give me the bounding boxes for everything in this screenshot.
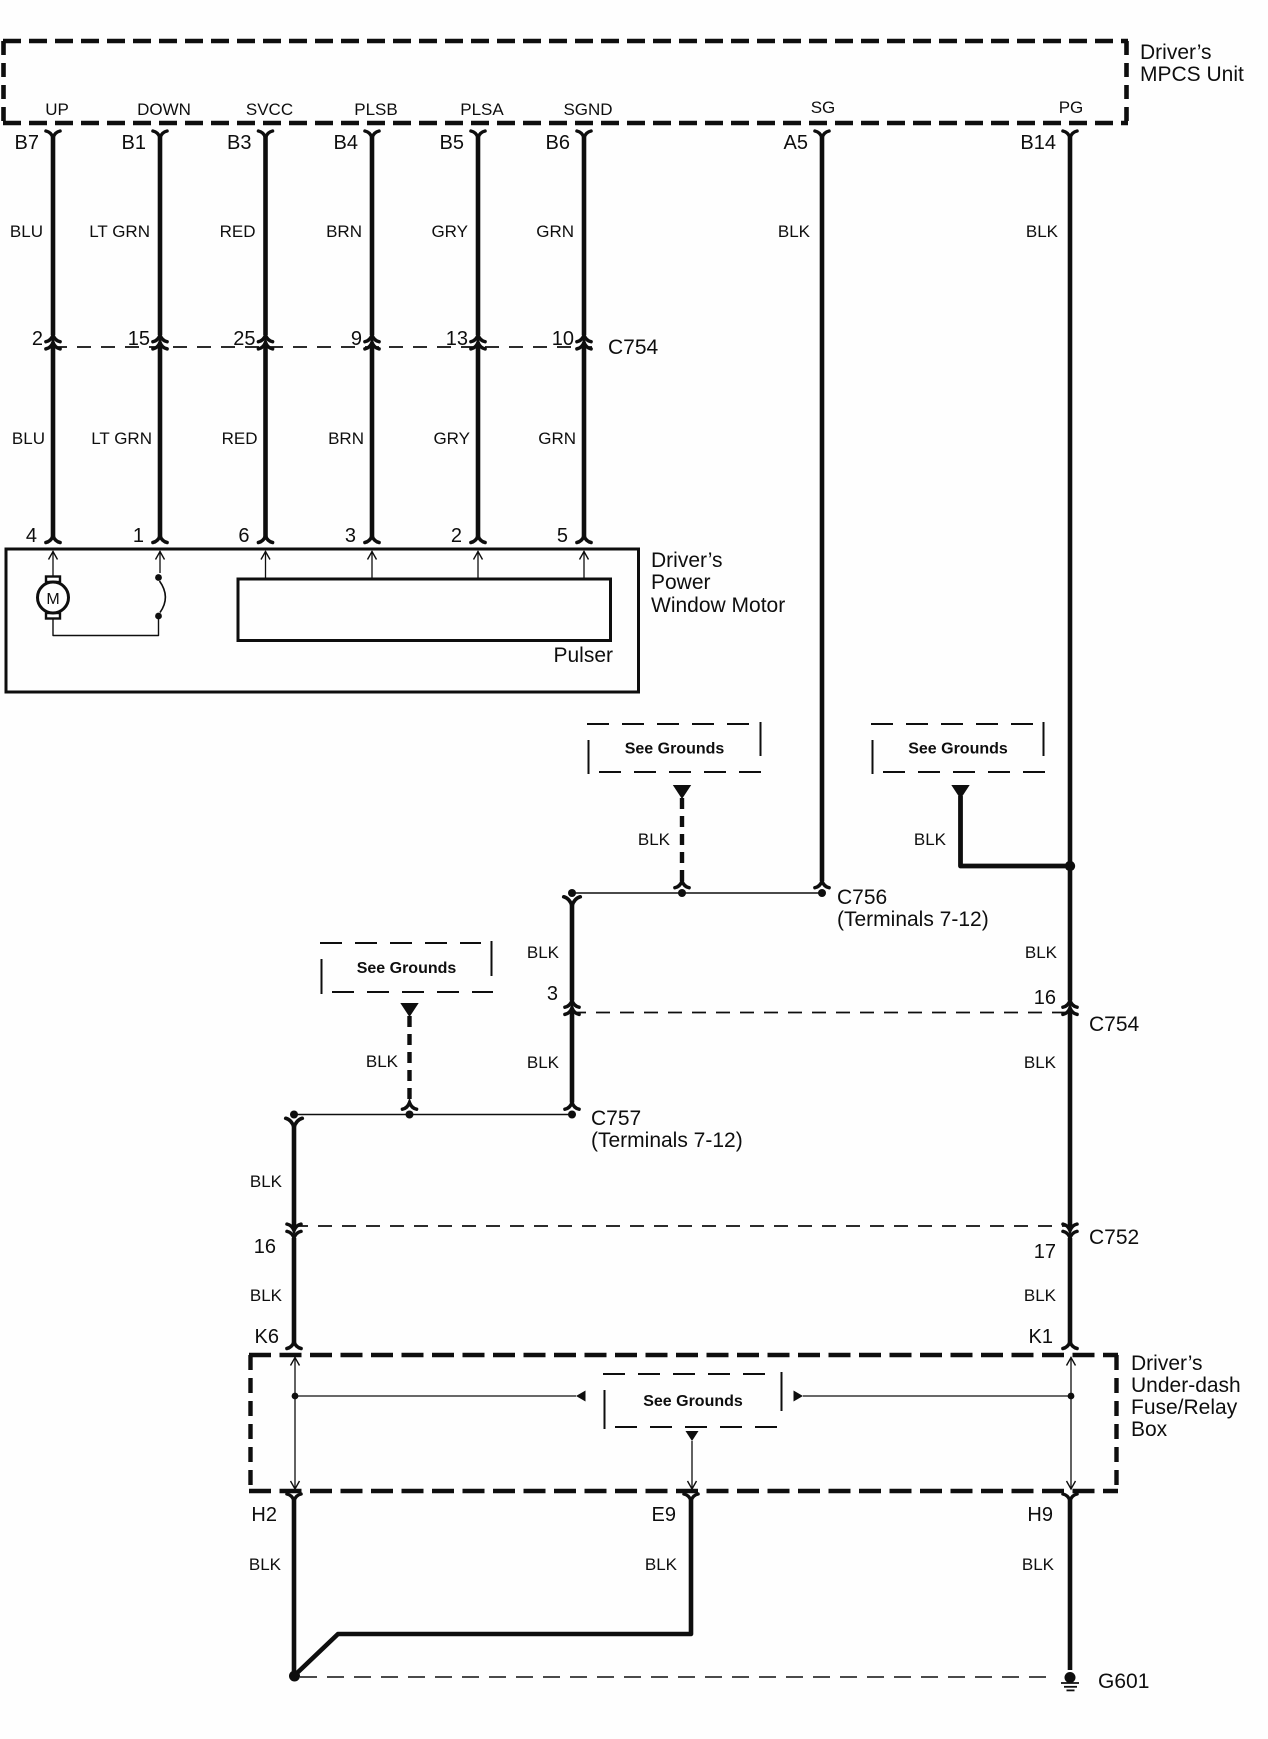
connector C754 pin 25 pass-through bbox=[233, 328, 272, 350]
svg-text:2: 2 bbox=[451, 525, 462, 547]
internal lead to pin 1 bbox=[156, 551, 165, 573]
MPCS pin name SGND bbox=[563, 100, 612, 119]
wire BLU from C754 to motor pin 4 bbox=[12, 344, 53, 537]
MPCS pin name PG bbox=[1059, 98, 1084, 117]
svg-text:SG: SG bbox=[811, 98, 836, 117]
MPCS pin name UP bbox=[45, 100, 69, 119]
svg-text:GRY: GRY bbox=[431, 222, 468, 241]
motor connector pin 3 bbox=[345, 525, 379, 547]
MPCS pin name PLSA bbox=[460, 100, 504, 119]
svg-text:4: 4 bbox=[26, 525, 37, 547]
triangle pointer from see grounds 2 bbox=[951, 785, 969, 799]
label C756 bbox=[837, 886, 989, 931]
terminal B4 at MPCS unit bbox=[334, 131, 380, 154]
svg-text:RED: RED bbox=[222, 429, 258, 448]
svg-text:2: 2 bbox=[32, 328, 43, 350]
C757 node left bbox=[290, 1111, 298, 1119]
svg-text:Fuse/Relay: Fuse/Relay bbox=[1131, 1396, 1238, 1419]
see grounds reference box 2 bbox=[871, 722, 1045, 774]
ground splice node bbox=[289, 1671, 300, 1682]
svg-text:5: 5 bbox=[557, 525, 568, 547]
svg-text:BLK: BLK bbox=[1022, 1555, 1055, 1574]
wire BLK dashed from see grounds 3 to C757 bbox=[366, 1016, 410, 1103]
label drivers under-dash fuse relay box bbox=[1131, 1352, 1241, 1441]
connector C754 (lower dashed line) bbox=[572, 1013, 1140, 1037]
terminal B6 at MPCS unit bbox=[546, 131, 592, 154]
svg-text:MPCS Unit: MPCS Unit bbox=[1140, 63, 1244, 86]
svg-text:BLU: BLU bbox=[12, 429, 45, 448]
svg-text:See Grounds: See Grounds bbox=[643, 1393, 743, 1410]
A5 wire end fork at C756 bbox=[815, 881, 829, 888]
wire BRN from C754 to motor pin 3 bbox=[328, 344, 372, 537]
wire BLK from C754 pin 3 to C757 bbox=[527, 1010, 572, 1103]
svg-text:BLK: BLK bbox=[527, 943, 560, 962]
svg-text:See Grounds: See Grounds bbox=[908, 741, 1008, 758]
wire BLK on PG line C754 to C752 bbox=[1024, 1010, 1070, 1230]
connector C754 pin 9 pass-through bbox=[351, 328, 379, 350]
svg-text:LT GRN: LT GRN bbox=[91, 429, 152, 448]
svg-text:G601: G601 bbox=[1098, 1670, 1149, 1693]
svg-text:H9: H9 bbox=[1027, 1504, 1053, 1526]
svg-text:SGND: SGND bbox=[563, 100, 612, 119]
C757 node right bbox=[568, 1111, 576, 1119]
svg-text:BLK: BLK bbox=[527, 1053, 560, 1072]
wire BLK from see grounds 2 to PG wire bbox=[914, 796, 1070, 866]
svg-text:C757: C757 bbox=[591, 1107, 641, 1130]
svg-text:17: 17 bbox=[1034, 1241, 1056, 1263]
svg-text:DOWN: DOWN bbox=[137, 100, 191, 119]
MPCS pin name PLSB bbox=[354, 100, 397, 119]
wire BLU from B7 to C754 pin 2 bbox=[10, 136, 53, 335]
svg-text:BRN: BRN bbox=[326, 222, 362, 241]
svg-text:B6: B6 bbox=[546, 132, 570, 154]
motor connector pin 6 bbox=[238, 525, 272, 547]
terminal E9 fuse box bbox=[652, 1494, 699, 1526]
internal ground bus left arm bbox=[295, 1391, 586, 1402]
pulser switch contact (upper) bbox=[155, 574, 162, 581]
svg-text:BLK: BLK bbox=[1025, 943, 1058, 962]
C756 node middle bbox=[678, 889, 686, 897]
wire LT GRN from B1 to C754 pin 15 bbox=[89, 136, 160, 335]
svg-text:BLK: BLK bbox=[250, 1286, 283, 1305]
motor connector pin 4 bbox=[26, 525, 60, 547]
wire BLK from E9 to ground splice bbox=[296, 1498, 691, 1674]
svg-text:BLK: BLK bbox=[638, 830, 671, 849]
connector C754 pin 15 pass-through bbox=[128, 328, 167, 350]
label G601 bbox=[1098, 1670, 1149, 1693]
svg-text:BRN: BRN bbox=[328, 429, 364, 448]
svg-text:BLK: BLK bbox=[1024, 1286, 1057, 1305]
connector C754 pin 10 pass-through bbox=[552, 328, 591, 350]
terminal B3 at MPCS unit bbox=[227, 131, 273, 154]
svg-text:B1: B1 bbox=[122, 132, 146, 154]
svg-text:Driver’s: Driver’s bbox=[1140, 41, 1212, 64]
terminal B14 at MPCS unit bbox=[1020, 131, 1077, 154]
svg-text:BLK: BLK bbox=[250, 1172, 283, 1191]
internal lead to pin 2 bbox=[474, 551, 483, 579]
label: Drivers MPCS Unit bbox=[1140, 41, 1244, 86]
connector C756 line bbox=[572, 892, 822, 894]
svg-text:K6: K6 bbox=[255, 1326, 279, 1348]
see grounds reference box 1 bbox=[587, 722, 762, 774]
connector C754 (upper dashed line) bbox=[53, 336, 659, 359]
svg-text:GRN: GRN bbox=[538, 429, 576, 448]
wire RED from C754 to motor pin 6 bbox=[222, 344, 266, 537]
svg-text:BLU: BLU bbox=[10, 222, 43, 241]
internal ground bus right arm bbox=[794, 1391, 1072, 1402]
label drivers power window motor bbox=[651, 549, 785, 617]
motor connector pin 1 bbox=[133, 525, 167, 547]
drivers power window motor box bbox=[6, 549, 639, 692]
internal lead see grounds 4 to E9 bbox=[688, 1441, 697, 1489]
svg-text:RED: RED bbox=[220, 222, 256, 241]
svg-text:Under-dash: Under-dash bbox=[1131, 1374, 1241, 1397]
ground G601 symbol bbox=[1061, 1672, 1079, 1690]
svg-text:GRY: GRY bbox=[433, 429, 470, 448]
MPCS pin name SG bbox=[811, 98, 836, 117]
wire RED from B3 to C754 pin 25 bbox=[220, 136, 266, 335]
svg-text:6: 6 bbox=[238, 525, 249, 547]
svg-text:K1: K1 bbox=[1029, 1326, 1053, 1348]
svg-text:B5: B5 bbox=[440, 132, 464, 154]
wire GRN from C754 to motor pin 5 bbox=[538, 344, 584, 537]
pulser box bbox=[238, 579, 611, 641]
svg-text:BLK: BLK bbox=[645, 1555, 678, 1574]
wire motor to switch bbox=[53, 619, 159, 636]
wire GRY from C754 to motor pin 2 bbox=[433, 344, 478, 537]
label pulser bbox=[553, 644, 613, 667]
wire BLK from C756 to C754 pin 3 bbox=[527, 897, 580, 1001]
wire LT GRN from C754 to motor pin 1 bbox=[91, 344, 160, 537]
motor M (window motor) bbox=[38, 577, 69, 619]
svg-text:16: 16 bbox=[1034, 987, 1056, 1009]
see grounds 3 wire end fork at C757 bbox=[402, 1103, 416, 1110]
svg-text:GRN: GRN bbox=[536, 222, 574, 241]
connector C752 pin 17 pass-through bbox=[1034, 1224, 1077, 1263]
wire BLK from H2 to ground splice bbox=[249, 1498, 294, 1671]
svg-text:M: M bbox=[46, 591, 59, 608]
pulser switch arc bbox=[160, 581, 166, 613]
internal lead to pin 6 bbox=[261, 551, 270, 579]
label C757 bbox=[591, 1107, 743, 1152]
motor connector pin 2 bbox=[451, 525, 485, 547]
connector C752 pin 16 pass-through bbox=[254, 1224, 301, 1258]
MPCS pin name SVCC bbox=[246, 100, 293, 119]
terminal A5 at MPCS unit bbox=[784, 131, 830, 154]
svg-text:PLSB: PLSB bbox=[354, 100, 397, 119]
C756 node left bbox=[568, 889, 576, 897]
svg-text:3: 3 bbox=[345, 525, 356, 547]
terminal B1 at MPCS unit bbox=[122, 131, 168, 154]
svg-text:Power: Power bbox=[651, 571, 711, 594]
terminal B7 at MPCS unit bbox=[15, 131, 61, 154]
connector C754 pin 13 pass-through bbox=[446, 328, 485, 350]
svg-text:C754: C754 bbox=[608, 336, 659, 359]
fuse relay box (dashed outline) bbox=[249, 1355, 1118, 1491]
connector C754 pin 2 pass-through bbox=[32, 328, 60, 350]
internal node at K1 lead bbox=[1068, 1393, 1075, 1400]
svg-text:See Grounds: See Grounds bbox=[357, 960, 457, 977]
svg-text:UP: UP bbox=[45, 100, 69, 119]
MPCS unit box (dashed outline) bbox=[3, 41, 1128, 123]
connector C752 dashed line bbox=[294, 1226, 1139, 1249]
internal lead K6 to H2 bbox=[291, 1357, 300, 1489]
svg-text:H2: H2 bbox=[251, 1504, 277, 1526]
wire BLK from B14 down right side bbox=[1026, 136, 1070, 866]
svg-text:B3: B3 bbox=[227, 132, 251, 154]
internal lead to pin 5 bbox=[580, 551, 589, 579]
see grounds reference box 4 (inside fuse box) bbox=[603, 1372, 783, 1429]
ground bus dashed line to G601 bbox=[300, 1676, 1056, 1678]
connector C754 pin 16 pass-through bbox=[1034, 987, 1077, 1014]
svg-text:Window Motor: Window Motor bbox=[651, 594, 785, 617]
connector C757 line bbox=[294, 1114, 572, 1116]
svg-text:Driver’s: Driver’s bbox=[1131, 1352, 1203, 1375]
wire BLK from C752 pin 17 to fuse box K1 bbox=[1024, 1238, 1070, 1343]
internal lead K1 to H9 bbox=[1067, 1357, 1076, 1489]
triangle pointer from see grounds 3 bbox=[400, 1003, 418, 1017]
wire BLK from A5 down to C756 bbox=[778, 136, 822, 881]
svg-text:B4: B4 bbox=[334, 132, 358, 154]
svg-text:PLSA: PLSA bbox=[460, 100, 504, 119]
svg-text:PG: PG bbox=[1059, 98, 1084, 117]
see grounds reference box 3 bbox=[320, 941, 493, 994]
junction node on PG wire bbox=[1065, 861, 1075, 871]
terminal K6 fuse box bbox=[255, 1326, 302, 1349]
svg-text:A5: A5 bbox=[784, 132, 808, 154]
svg-text:(Terminals 7-12): (Terminals 7-12) bbox=[837, 908, 989, 931]
terminal K1 fuse box bbox=[1029, 1326, 1078, 1349]
svg-text:See Grounds: See Grounds bbox=[625, 741, 725, 758]
C757 node middle bbox=[406, 1111, 414, 1119]
svg-text:BLK: BLK bbox=[1024, 1053, 1057, 1072]
triangle pointer from see grounds 4 bbox=[686, 1431, 699, 1441]
MPCS pin name DOWN bbox=[137, 100, 191, 119]
svg-text:E9: E9 bbox=[652, 1504, 676, 1526]
svg-text:Box: Box bbox=[1131, 1418, 1168, 1441]
internal lead to pin 4 bbox=[49, 551, 58, 577]
svg-text:BLK: BLK bbox=[778, 222, 811, 241]
svg-text:BLK: BLK bbox=[914, 830, 947, 849]
connector C754 pin 3 pass-through bbox=[547, 983, 579, 1014]
wire BLK from H9 to ground G601 bbox=[1022, 1498, 1070, 1670]
svg-text:3: 3 bbox=[547, 983, 558, 1005]
svg-text:Pulser: Pulser bbox=[553, 644, 613, 667]
internal lead to pin 3 bbox=[368, 551, 377, 579]
wire BLK from C757 to C752 pin 16 bbox=[250, 1118, 302, 1229]
see grounds 1 wire end fork at C756 bbox=[675, 881, 689, 888]
svg-text:BLK: BLK bbox=[249, 1555, 282, 1574]
svg-text:(Terminals 7-12): (Terminals 7-12) bbox=[591, 1129, 743, 1152]
svg-text:SVCC: SVCC bbox=[246, 100, 293, 119]
svg-text:1: 1 bbox=[133, 525, 144, 547]
terminal B5 at MPCS unit bbox=[440, 131, 486, 154]
svg-text:B14: B14 bbox=[1020, 132, 1056, 154]
wire GRY from B5 to C754 pin 13 bbox=[431, 136, 478, 335]
terminal H2 fuse box bbox=[251, 1494, 301, 1526]
wire end fork at C757 right bbox=[565, 1103, 579, 1110]
internal node at K6 lead bbox=[292, 1393, 299, 1400]
wire BLK dashed from see grounds 1 to C756 bbox=[638, 798, 682, 881]
svg-text:BLK: BLK bbox=[366, 1052, 399, 1071]
triangle pointer from see grounds 1 bbox=[673, 785, 691, 799]
svg-text:C754: C754 bbox=[1089, 1013, 1140, 1036]
svg-text:16: 16 bbox=[254, 1236, 276, 1258]
terminal H9 fuse box bbox=[1027, 1494, 1077, 1526]
svg-text:BLK: BLK bbox=[1026, 222, 1059, 241]
svg-text:C752: C752 bbox=[1089, 1226, 1139, 1249]
wire BLK PG junction to C754 pin 16 bbox=[1025, 866, 1070, 1001]
C756 node right bbox=[818, 889, 826, 897]
wire BRN from B4 to C754 pin 9 bbox=[326, 136, 372, 335]
pulser switch contact (lower) bbox=[155, 613, 162, 620]
svg-text:C756: C756 bbox=[837, 886, 887, 909]
motor connector pin 5 bbox=[557, 525, 591, 547]
wire BLK from C752 pin 16 to fuse box K6 bbox=[250, 1238, 294, 1343]
svg-text:LT GRN: LT GRN bbox=[89, 222, 150, 241]
svg-text:Driver’s: Driver’s bbox=[651, 549, 723, 572]
wire GRN from B6 to C754 pin 10 bbox=[536, 136, 584, 335]
svg-text:B7: B7 bbox=[15, 132, 39, 154]
